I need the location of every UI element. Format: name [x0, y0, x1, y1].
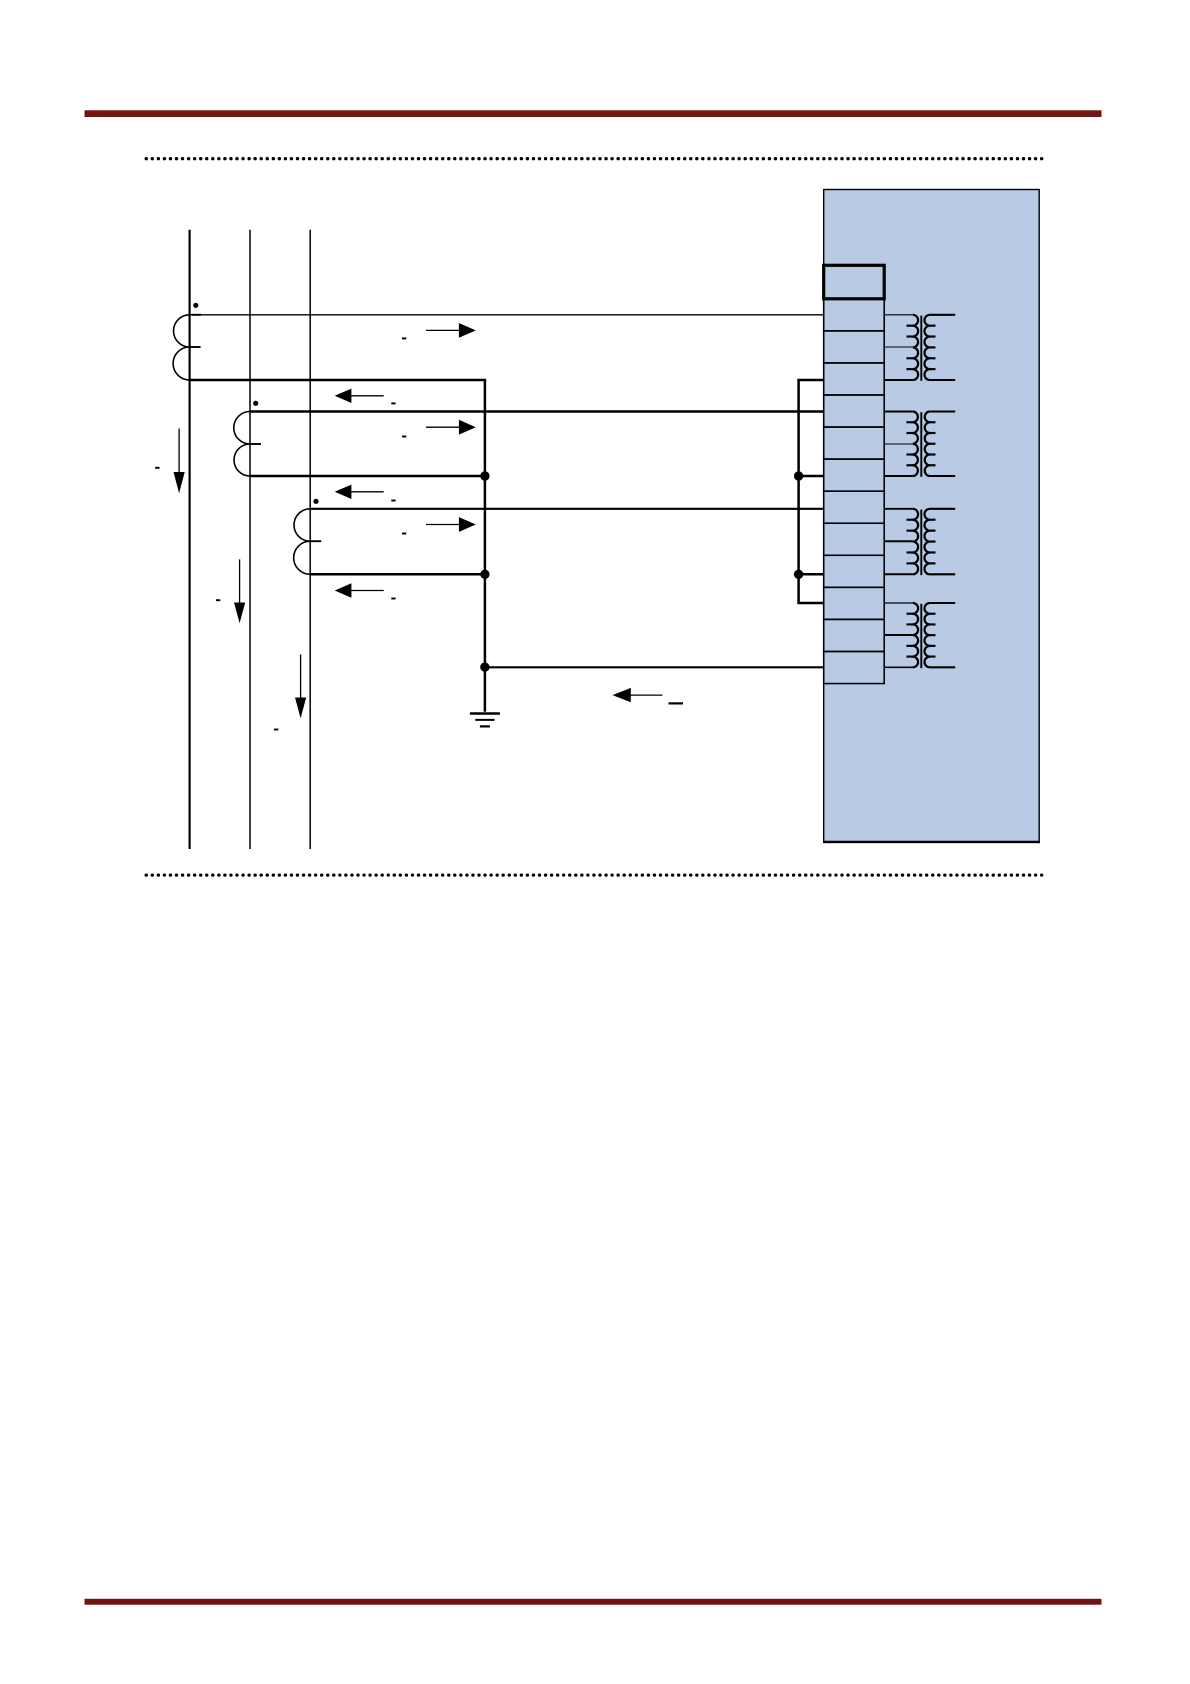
wire CT B return — [250, 475, 485, 478]
bus phase A — [189, 230, 191, 849]
arrow phase C load current (down) — [295, 654, 306, 718]
label IC return — [391, 598, 395, 600]
label IB — [402, 436, 406, 438]
label IC — [402, 533, 406, 535]
terminal cell 6 — [824, 459, 885, 491]
label IA return — [391, 402, 395, 404]
CT C mid tick — [310, 540, 321, 542]
wire CT A return — [190, 379, 487, 382]
CT B polarity dot — [253, 401, 258, 406]
wire IA polarity to terminal 1 — [190, 314, 824, 316]
terminal cell 12 — [824, 652, 885, 684]
CT A top stub — [192, 314, 201, 316]
terminal cell 9 — [824, 555, 885, 587]
CT A coil — [173, 315, 190, 380]
jumper stub terminal 9 — [799, 573, 824, 576]
CT B coil — [234, 412, 250, 477]
relay box U1 — [824, 190, 1039, 843]
wire CT C return — [310, 573, 485, 576]
junction dot CT C return — [480, 570, 489, 579]
CT C coil — [294, 509, 311, 575]
relay box bottom edge — [823, 841, 1040, 843]
wire neutral to terminal 12 — [485, 666, 824, 668]
terminal cell 1 — [824, 299, 885, 331]
CT A polarity dot — [193, 303, 198, 308]
terminal cell 7 — [824, 491, 885, 523]
arrow IC current (right) — [426, 517, 476, 532]
transformer T2 (IB input) — [884, 412, 955, 477]
junction dot neutral — [480, 662, 489, 671]
jumper stub terminal 6 — [799, 475, 824, 478]
label phase A — [155, 467, 159, 469]
arrow CT B return current (left) — [335, 485, 384, 499]
label IB return — [391, 500, 395, 502]
arrow neutral current (left) — [613, 688, 663, 702]
terminal block header box — [824, 265, 885, 299]
arrow CT A return current (left) — [335, 389, 384, 403]
figure top dotted border — [146, 157, 1046, 160]
arrow CT C return current (left) — [335, 583, 384, 597]
jumper stub terminal 10 — [797, 602, 823, 605]
terminal cell 4 — [824, 395, 885, 427]
junction dot terminal 9 jumper — [794, 570, 803, 579]
figure bottom dotted border — [146, 873, 1046, 876]
wire IB polarity to terminal 4 — [250, 410, 824, 412]
label IA — [402, 337, 406, 339]
wire right combiner (terminal jumper) — [797, 380, 800, 603]
ground symbol — [470, 714, 500, 727]
CT C polarity dot — [313, 499, 318, 504]
transformer T1 (IA input) — [884, 315, 955, 381]
terminal cell 3 — [824, 363, 885, 395]
terminal cell 8 — [824, 523, 885, 555]
page footer rule — [85, 1599, 1102, 1605]
label phase C — [274, 729, 278, 731]
junction dot terminal 6 jumper — [794, 471, 803, 480]
arrow phase A load current (down) — [174, 429, 185, 494]
terminal cell 5 — [824, 427, 885, 459]
transformer T4 (IN input) — [884, 603, 955, 668]
label phase B — [216, 599, 220, 601]
bus phase C — [309, 230, 311, 849]
arrow phase B load current (down) — [234, 559, 245, 623]
label IN return — [669, 702, 684, 704]
page header rule — [85, 110, 1102, 117]
wire left combiner (CT neutral) — [484, 380, 487, 712]
arrow IB current (right) — [426, 420, 476, 435]
CT B mid tick — [250, 443, 261, 445]
terminal cell 10 — [824, 587, 885, 619]
wire IC polarity to terminal 7 — [310, 508, 824, 510]
terminal cell 11 — [824, 619, 885, 651]
bus phase B — [249, 230, 251, 849]
jumper stub terminal 3 — [797, 379, 823, 382]
arrow IA current (right) — [426, 323, 476, 338]
CT A mid tick — [190, 346, 201, 348]
terminal cell 2 — [824, 331, 885, 363]
junction dot CT B return — [480, 471, 489, 480]
transformer T3 (IC input) — [884, 509, 955, 575]
